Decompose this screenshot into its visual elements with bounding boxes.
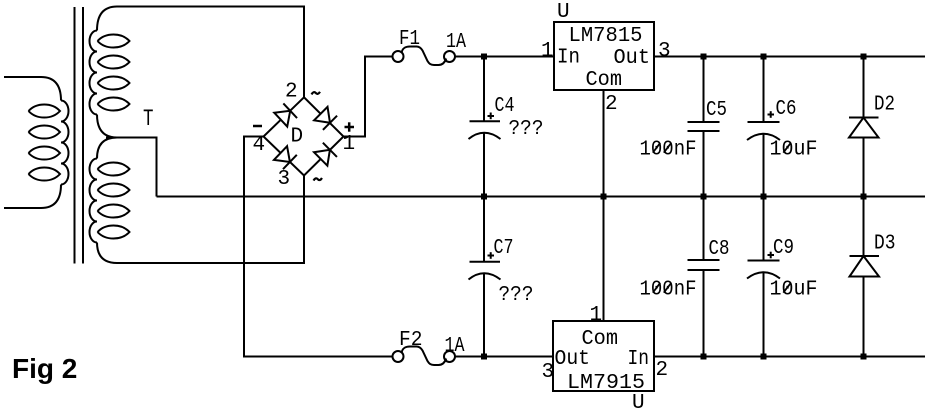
wire U1 Out to top rail right: [654, 56, 925, 58]
transformer core: [75, 7, 84, 264]
svg-text:T: T: [143, 106, 154, 132]
svg-text:Out: Out: [614, 47, 651, 70]
svg-text:In: In: [557, 47, 580, 70]
svg-text:D: D: [291, 126, 304, 149]
regulator U1 LM7815: [554, 22, 654, 90]
svg-text:1: 1: [541, 40, 554, 63]
wire bridge pin 1 to fuse F1: [344, 57, 393, 137]
node junction C5 bottom: [701, 194, 707, 200]
wire secondary top to bridge pin 2: [117, 7, 304, 98]
node junction C5 top: [701, 54, 707, 60]
svg-text:F1: F1: [399, 28, 420, 51]
capacitor C9: [747, 197, 780, 357]
capacitor C7: [469, 197, 501, 357]
svg-text:2: 2: [285, 81, 298, 104]
plus C9: [768, 252, 775, 259]
wire bridge pin 4 to fuse F2: [244, 137, 393, 357]
svg-text:C6: C6: [776, 98, 797, 121]
svg-text:Fig 2: Fig 2: [12, 353, 77, 384]
svg-text:10uF: 10uF: [770, 139, 818, 162]
node junction D2 bottom: [861, 194, 867, 200]
wire fuse F2 to U2 Out: [455, 356, 553, 358]
svg-text:2: 2: [605, 93, 618, 116]
diode D3: [850, 197, 880, 357]
svg-text:Com: Com: [586, 69, 623, 92]
wire secondary bottom to bridge pin 3: [117, 176, 304, 264]
svg-text:100nF: 100nF: [640, 279, 697, 302]
svg-text:C7: C7: [494, 237, 514, 260]
svg-text:1A: 1A: [446, 31, 466, 54]
svg-text:3: 3: [658, 40, 671, 63]
fuse F2: [393, 347, 456, 366]
svg-text:C5: C5: [706, 99, 727, 122]
svg-text:U: U: [632, 392, 645, 414]
minus sign: [253, 125, 262, 128]
tilde bottom: [314, 178, 323, 181]
svg-text:C8: C8: [709, 238, 730, 261]
bridge rectifier D: [264, 97, 344, 175]
svg-text:3: 3: [278, 168, 291, 191]
svg-text:2: 2: [656, 359, 669, 382]
capacitor C5: [688, 57, 720, 197]
node junction C6 bottom: [761, 194, 767, 200]
node junction C6 top: [761, 54, 767, 60]
svg-text:1: 1: [590, 304, 603, 327]
node junction D2 top: [861, 54, 867, 60]
svg-text:In: In: [628, 348, 650, 371]
svg-text:3: 3: [542, 361, 555, 384]
plus C7: [488, 252, 495, 259]
node junction Com mid rail: [601, 194, 607, 200]
svg-text:F2: F2: [399, 329, 423, 352]
tilde top: [312, 92, 321, 95]
capacitor C6: [747, 57, 780, 197]
transformer T secondary upper winding: [90, 7, 130, 138]
plus sign: [345, 122, 355, 131]
wire U2 In to bottom rail right: [654, 356, 925, 358]
svg-text:D2: D2: [874, 94, 895, 117]
node junction C8 bottom: [701, 354, 707, 360]
svg-text:10uF: 10uF: [770, 279, 818, 302]
svg-text:D3: D3: [874, 233, 896, 256]
svg-text:???: ???: [499, 284, 534, 307]
regulator U2 LM7915: [553, 321, 654, 391]
wire mid rail: [157, 196, 926, 198]
capacitor C8: [688, 197, 720, 357]
wire fuse F1 to U1 In: [455, 56, 554, 58]
svg-text:LM7815: LM7815: [569, 25, 643, 48]
fuse F1: [393, 47, 456, 66]
capacitor C4: [469, 57, 501, 197]
node junction C9 bottom: [761, 354, 767, 360]
svg-text:???: ???: [509, 118, 544, 141]
transformer T secondary lower winding: [90, 138, 130, 264]
svg-text:C9: C9: [773, 237, 794, 260]
plus C4: [488, 113, 495, 120]
node junction C4 top: [481, 54, 487, 60]
svg-text:Out: Out: [555, 348, 591, 371]
svg-text:100nF: 100nF: [640, 139, 697, 162]
plus C6: [768, 111, 775, 118]
wire U1 Com to mid rail to U2 Com: [603, 90, 605, 321]
node junction D3 bottom: [861, 354, 867, 360]
svg-text:U: U: [557, 1, 570, 24]
transformer T primary winding: [4, 77, 69, 208]
diode D2: [849, 57, 879, 197]
node junction C7 bottom: [481, 354, 487, 360]
svg-text:C4: C4: [495, 95, 515, 118]
svg-text:1A: 1A: [445, 335, 465, 358]
node junction C4 bottom: [481, 194, 487, 200]
wire center tap to mid rail: [106, 138, 157, 197]
